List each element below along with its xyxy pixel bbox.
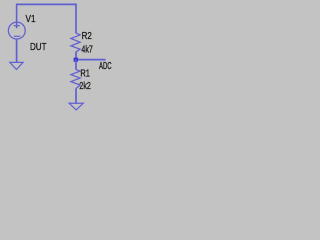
svg-text:ADC: ADC	[99, 61, 112, 72]
wire node to R1	[75, 60, 77, 70]
node junction dot	[74, 58, 78, 62]
ground right	[69, 103, 83, 110]
svg-text:V1: V1	[26, 14, 36, 25]
ground left	[10, 62, 23, 69]
wire left vertical to V1 top	[16, 4, 18, 29]
svg-text:R2: R2	[82, 31, 92, 42]
svg-text:4k7: 4k7	[81, 44, 93, 55]
wire right vertical to R2	[75, 4, 77, 34]
svg-text:2k2: 2k2	[79, 81, 91, 92]
wire top horizontal	[17, 3, 76, 5]
voltage source V1	[8, 22, 25, 39]
svg-text:DUT: DUT	[30, 42, 47, 53]
wire node to ADC stub	[76, 59, 106, 61]
resistor R1	[71, 70, 80, 89]
wire R2 bottom to node	[75, 52, 77, 60]
resistor R2	[71, 33, 80, 52]
svg-text:R1: R1	[80, 68, 90, 79]
wire V1 bottom to ground	[16, 40, 18, 63]
wire R1 bottom to ground	[75, 88, 77, 103]
